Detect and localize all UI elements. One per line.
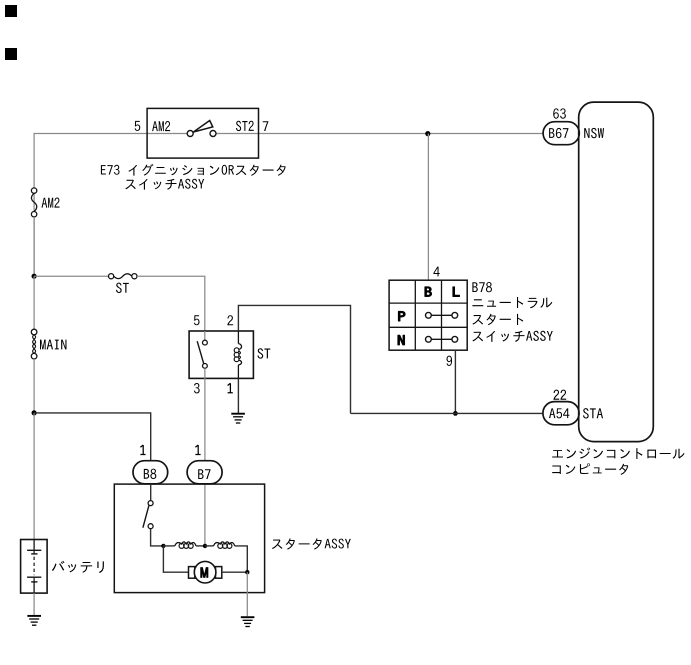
label fuse ST [116,283,129,293]
B78 grid column divider 1 [414,280,416,350]
label 63 [553,108,566,118]
label B78 [472,282,492,292]
relay switch blade (open) [197,341,204,363]
starter switch contact circle bottom [148,524,153,529]
label E73 switch name line2 [125,179,204,190]
wire ST2: ignition switch contact to B67 with branch node [216,133,543,135]
B78 grid column divider 2 [441,280,443,350]
wire battery node to B8 [34,413,151,461]
fuse AM2 circle top [31,188,36,193]
label switch assy line3 [472,331,552,342]
label fuse AM2 [42,198,60,208]
wire relay pin2 coil feed from STA net [238,305,350,413]
corner marker square 1 (transparent-black artifact) [5,5,17,17]
motor M1 body circle [194,561,216,583]
battery plate long bottom [27,576,41,578]
wire node to hold-in coil [205,545,214,547]
wire STA net to A54 [351,412,544,414]
connector B7 stadium [187,461,222,484]
battery plate short bottom [31,581,37,583]
battery plate stub top [33,540,35,550]
fuse ST element [114,274,132,279]
battery plate stub bottom [33,582,35,593]
relay switch contact circle bottom [203,364,208,369]
neutral start switch B78 grid box [389,280,467,350]
fuse ST circle left [109,274,114,279]
fuse AM2 element [31,193,36,211]
label pin 9 (B78) [447,356,453,366]
relay switch contact circle top [203,340,208,345]
label relay pin 3 [194,383,200,393]
B78 grid row divider 1 [389,302,467,304]
coil L1 pull-in winding [175,542,196,546]
node B7 coil junction dot [203,544,207,548]
label relay pin 5 [194,315,200,325]
battery box [21,540,47,594]
wire relay pin3 from switch contact down to B7 [204,368,206,460]
label starter assy [272,538,351,549]
fuse AM2 circle bottom [31,212,36,217]
label neutral line1 [472,297,552,308]
wire node to pull-in coil [163,545,174,547]
label E73 switch name line1 [101,164,286,176]
label 22 [553,390,566,400]
label MAIN [40,340,66,350]
label ECU name line1 [552,447,684,459]
ground below battery [27,616,41,625]
label B8 [144,469,157,479]
wire coil L1 to B7 node [196,545,205,547]
wire starter switch to solenoid node [151,529,164,546]
label STA [583,408,603,418]
wire battery negative to ground [33,593,35,615]
wire relay pin1 to ground [237,378,239,413]
ground below starter [241,617,255,626]
wire motor right to ground node [222,571,248,573]
wire coil L2 to motor right node [235,546,248,572]
label column L [453,287,459,296]
relay coil [234,331,241,378]
wire battery feed down to battery [33,413,35,540]
label pin 1 (B7) [195,445,200,455]
label AM2 terminal [152,121,170,131]
coil L2 hold-in winding [214,542,235,546]
motor M1 left brush tab [189,567,195,579]
node motor ground junction dot [245,570,249,574]
connector B67 stadium [543,122,579,145]
wire B78 pin 4 drop [427,134,429,281]
label row N [398,335,404,344]
connector A54 stadium [543,402,579,425]
label pin 5 (ignition switch) [135,121,141,131]
contact pair row N [431,338,452,340]
label row P [399,311,406,320]
battery tick bottom [33,577,35,582]
starter switch contact circle top [148,501,153,506]
label B7 [198,469,210,479]
starter switch blade (open) [143,506,149,528]
battery plate long top [27,549,41,551]
node solenoid feed junction dot [161,544,165,548]
B78 grid row divider 2 [389,326,467,328]
fusible link MAIN circle bottom [31,353,37,359]
wire ST node to fuse ST [34,275,108,277]
wire B8 into starter switch [150,484,152,501]
ignition switch box E73 [147,108,258,158]
label start line2 [472,314,523,325]
wire fuse ST to relay pin 5 [137,276,205,331]
label column B [425,287,432,296]
label relay pin 1 [228,383,233,393]
label ST2 terminal [236,121,254,131]
label relay name ST [258,348,271,358]
ECU box engine control computer [579,102,654,442]
battery electrolyte dashed line [33,557,35,576]
wire AM2 feed: left rail top corner to ignition switch contact [34,134,187,277]
contact pair row P [431,314,452,316]
node ST branch junction dot [31,274,36,279]
switch S1 blade (open) [193,121,212,133]
wire starter ground drop [246,572,248,616]
fuse ST circle right [132,274,137,279]
wire left rail ST node to MAIN link [33,276,35,329]
label ECU name line2 [552,463,628,475]
battery plate short top [31,553,37,555]
wire solenoid node down to motor left [163,546,188,572]
label M motor [201,568,208,578]
relay box ST [189,331,253,378]
label pin 4 (B78) [433,267,439,277]
wire left rail AM2 fuse to ST branch node [33,217,35,276]
fusible link MAIN element [33,335,36,354]
label relay pin 2 [227,315,233,325]
wire relay pin5 into switch contact [204,331,206,340]
ground below relay [231,414,245,423]
label battery [52,561,104,573]
starter assembly box [114,484,264,592]
label B67 [549,128,568,138]
wire left rail MAIN to battery node [33,359,35,413]
switch S1 contact circle right [210,131,216,137]
node junction dot pin9/STA [453,411,458,416]
node battery branch junction dot [31,410,36,415]
wire B78 pin 9 to STA net [454,350,456,413]
node junction dot to B78 pin 4 [425,131,430,136]
label pin 1 (B8) [140,445,145,455]
fusible link MAIN circle top [31,329,37,335]
wire B7 into starter to coil node [204,484,206,546]
label NSW [584,128,604,138]
switch S1 contact circle left [187,131,193,137]
battery tick top [33,550,35,554]
corner marker square 2 (transparent-black artifact) [5,48,17,60]
label pin 7 (ignition switch) [263,121,269,131]
label A54 [549,408,569,418]
connector B8 stadium [133,461,168,484]
motor M1 right brush tab [216,567,222,579]
